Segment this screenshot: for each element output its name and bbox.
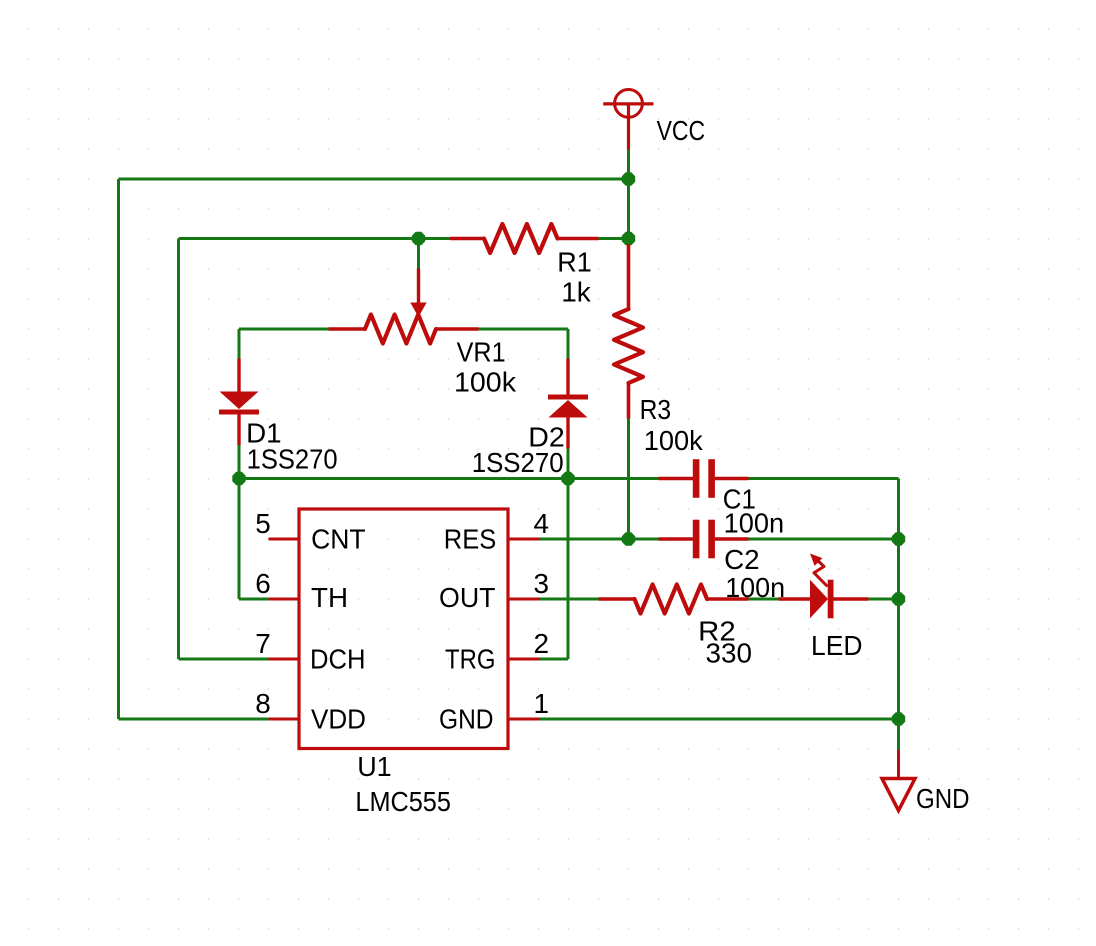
svg-text:U1: U1 (357, 751, 392, 782)
svg-text:100n: 100n (724, 508, 785, 539)
svg-text:330: 330 (706, 638, 753, 669)
svg-text:VR1: VR1 (457, 337, 506, 368)
svg-text:C2: C2 (724, 544, 760, 575)
svg-text:100k: 100k (644, 425, 704, 456)
svg-text:VCC: VCC (657, 115, 706, 146)
svg-text:GND: GND (439, 703, 494, 734)
svg-text:OUT: OUT (439, 582, 496, 613)
svg-text:R1: R1 (557, 247, 592, 278)
svg-text:TRG: TRG (445, 643, 496, 674)
svg-text:100k: 100k (454, 367, 517, 398)
svg-text:GND: GND (916, 783, 970, 814)
svg-text:3: 3 (534, 568, 550, 599)
svg-text:5: 5 (255, 508, 271, 539)
svg-text:TH: TH (311, 582, 348, 613)
svg-text:CNT: CNT (311, 523, 366, 554)
svg-text:1k: 1k (561, 277, 591, 308)
svg-text:1SS270: 1SS270 (247, 444, 338, 475)
svg-text:100n: 100n (725, 572, 785, 603)
svg-text:4: 4 (534, 508, 550, 539)
svg-text:RES: RES (444, 523, 497, 554)
svg-text:LMC555: LMC555 (355, 786, 451, 817)
svg-text:DCH: DCH (310, 643, 366, 674)
svg-text:1: 1 (534, 688, 550, 719)
svg-text:8: 8 (255, 688, 271, 719)
svg-text:LED: LED (811, 630, 863, 661)
svg-text:2: 2 (534, 628, 550, 659)
svg-text:VDD: VDD (311, 703, 366, 734)
svg-text:1SS270: 1SS270 (472, 447, 564, 478)
svg-text:R3: R3 (640, 394, 672, 425)
svg-text:6: 6 (255, 568, 271, 599)
svg-text:7: 7 (255, 628, 271, 659)
